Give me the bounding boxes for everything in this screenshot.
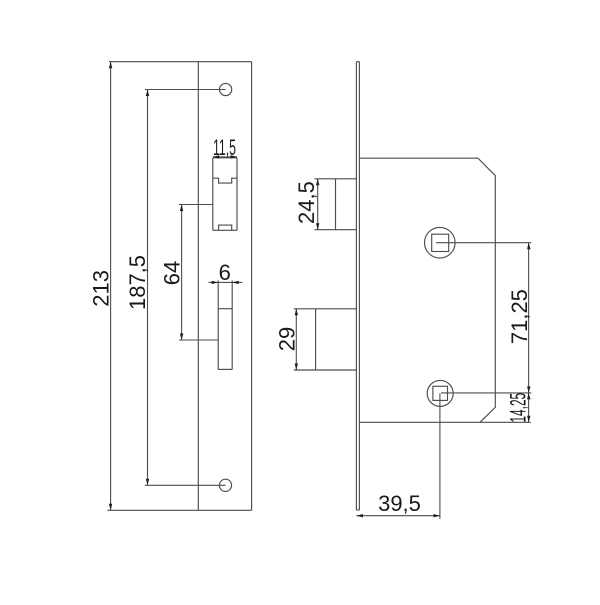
- latch bolt protrusion: [315, 179, 357, 230]
- arrowheads 24,5: [316, 179, 319, 186]
- latch cutout: [213, 158, 237, 231]
- arrowheads 64: [180, 205, 183, 212]
- faceplate outline (front view): [107, 62, 251, 511]
- lock body outline: [359, 158, 530, 422]
- arrowheads 213: [109, 62, 112, 68]
- svg-text:187,5: 187,5: [125, 255, 150, 310]
- arrowheads 187,5: [146, 90, 149, 97]
- screw hole top: [220, 83, 232, 95]
- dimension 39,5 line: [356, 393, 440, 518]
- svg-text:11,5: 11,5: [213, 135, 236, 160]
- arrowheads 39,5: [356, 514, 363, 517]
- svg-text:64: 64: [160, 261, 185, 285]
- svg-text:14,25: 14,25: [506, 393, 531, 423]
- bolt slot: [218, 280, 232, 369]
- svg-text:71,25: 71,25: [507, 289, 532, 344]
- spindle hole top (follower): [425, 227, 456, 258]
- screw hole bottom: [219, 479, 231, 491]
- dimension 71,25 line: [436, 243, 531, 393]
- svg-text:39,5: 39,5: [378, 491, 421, 516]
- dimension 213 line: [110, 62, 112, 511]
- arrowheads 29: [295, 309, 298, 316]
- svg-text:213: 213: [89, 270, 114, 307]
- arrowheads 71,25: [527, 243, 530, 250]
- dead bolt protrusion: [294, 309, 357, 370]
- dimension 64 line: [179, 205, 218, 341]
- dimension 14,25 line: [528, 393, 530, 422]
- forend plate (side view): [356, 62, 359, 510]
- dimension 29 line: [295, 309, 297, 370]
- svg-text:6: 6: [219, 260, 231, 285]
- dimension 6 line: [209, 281, 243, 283]
- svg-text:24,5: 24,5: [294, 181, 319, 224]
- dimension 187,5 line: [145, 90, 226, 486]
- svg-text:29: 29: [274, 327, 299, 351]
- arrowheads 11,5: [213, 155, 220, 158]
- arrowheads 14,25: [527, 393, 530, 400]
- spindle hole bottom: [427, 380, 453, 406]
- dimension 24,5 line: [317, 179, 319, 230]
- arrowheads 6: [212, 281, 219, 284]
- dimension 11,5 line: [213, 156, 237, 158]
